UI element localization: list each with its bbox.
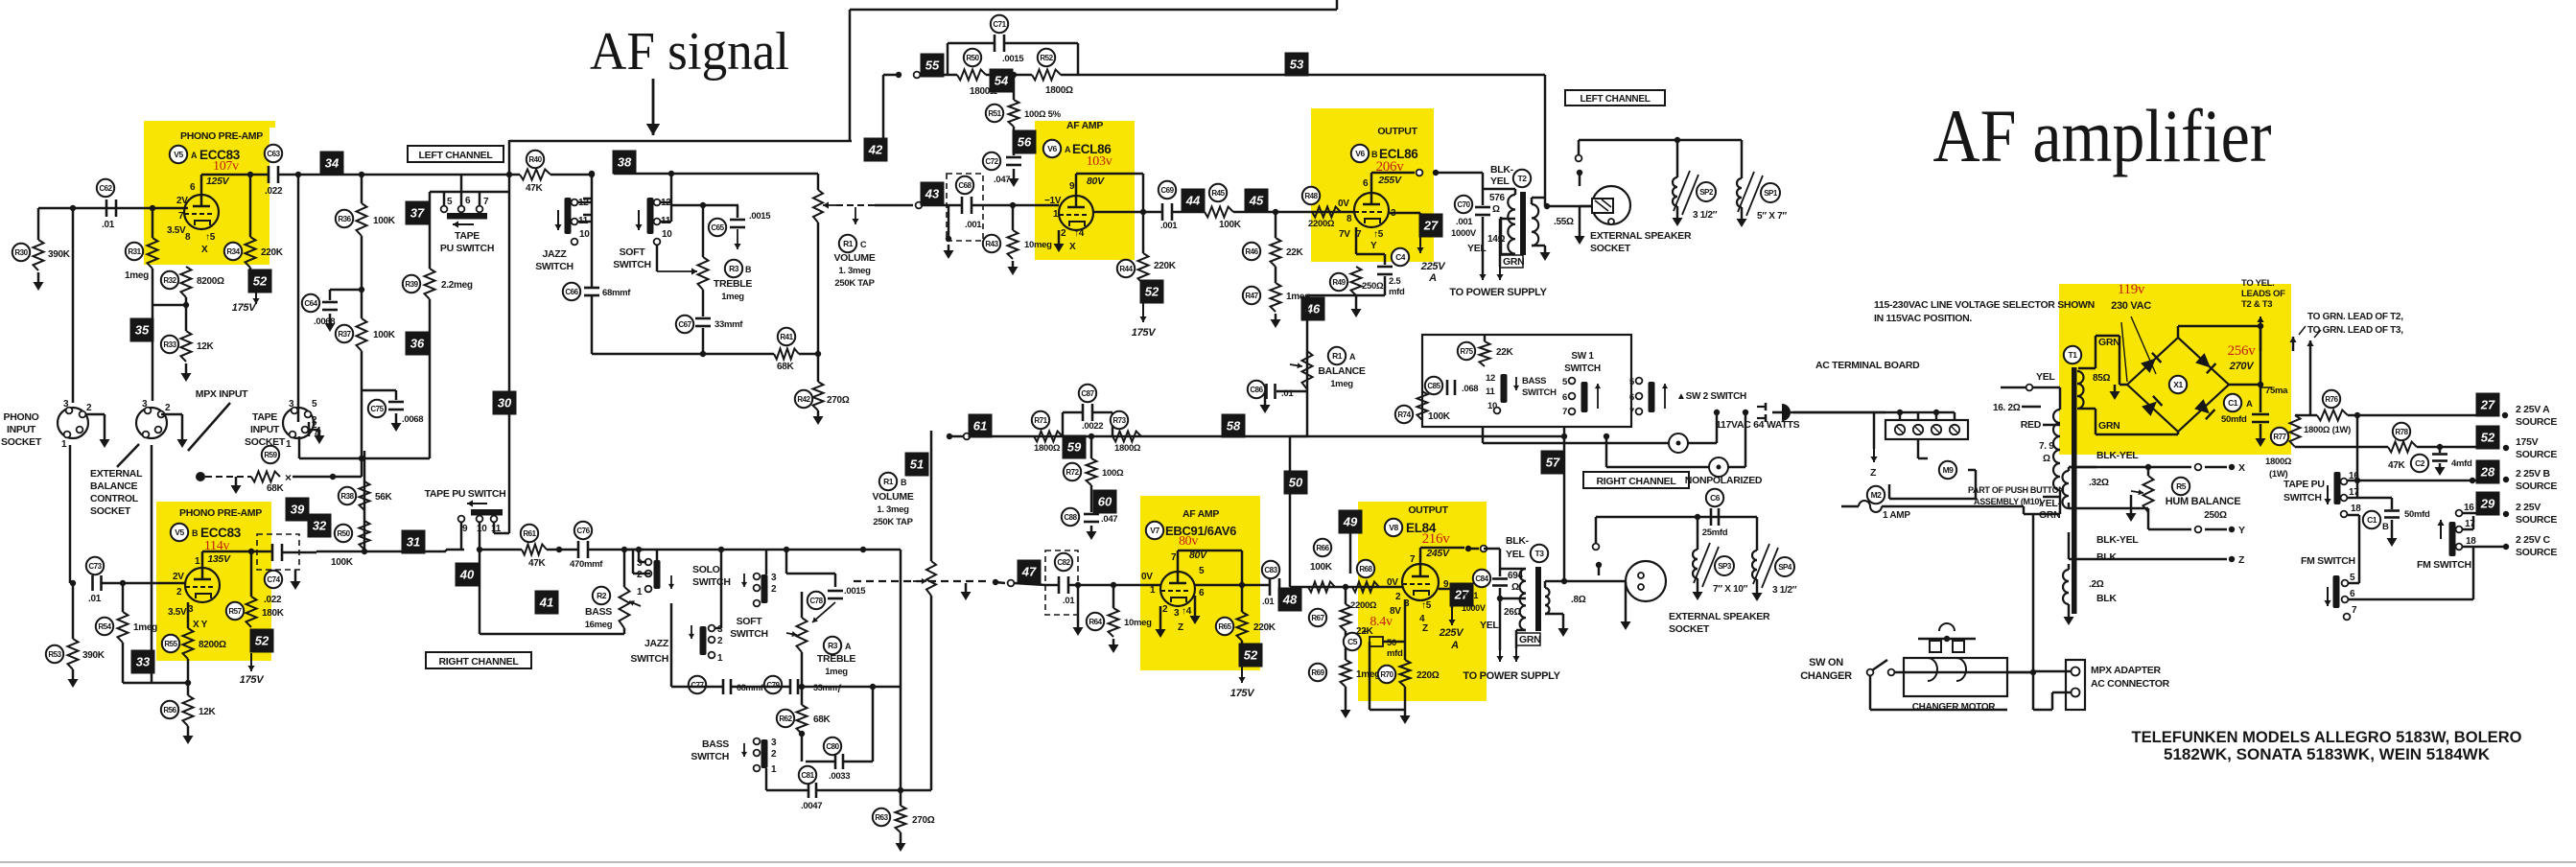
- svg-text:C70: C70: [1457, 200, 1470, 209]
- svg-text:1 AMP: 1 AMP: [1883, 510, 1910, 521]
- svg-text:YEL-: YEL-: [2039, 498, 2062, 509]
- svg-text:TAPE PU SWITCH: TAPE PU SWITCH: [425, 488, 506, 500]
- svg-text:×: ×: [285, 471, 292, 484]
- wire changer loop: [1869, 675, 1872, 710]
- arrow tape pu switch: [453, 223, 474, 225]
- tube V5a ECC83 triode: [184, 195, 219, 229]
- resistor R73 1800: [1112, 432, 1141, 442]
- svg-text:39: 39: [291, 503, 305, 517]
- svg-text:001: 001: [1464, 591, 1478, 600]
- svg-text:34: 34: [325, 156, 340, 171]
- svg-text:YEL: YEL: [1490, 176, 1510, 187]
- wire row 225VB: [2348, 480, 2480, 482]
- svg-text:B: B: [745, 265, 752, 274]
- wire row 175V b: [2417, 446, 2480, 449]
- wire row455: [949, 435, 1290, 438]
- svg-text:R63: R63: [875, 813, 888, 822]
- svg-text:AC CONNECTOR: AC CONNECTOR: [2091, 678, 2170, 690]
- changer motor box: [1904, 658, 2007, 696]
- resistor R49 250: [1351, 267, 1362, 295]
- svg-text:SP1: SP1: [1764, 189, 1778, 198]
- svg-text:1: 1: [195, 556, 200, 567]
- resistor R65 220K: [1241, 585, 1244, 612]
- svg-text:52: 52: [253, 274, 268, 289]
- tube V6a ECL86 triode: [1059, 196, 1093, 230]
- svg-text:R71: R71: [1034, 416, 1047, 425]
- svg-text:R42: R42: [797, 395, 810, 404]
- svg-text:SOCKET: SOCKET: [90, 505, 131, 517]
- wire V6a out row: [1093, 211, 1161, 214]
- svg-text:1meg: 1meg: [825, 667, 848, 677]
- capacitor C74 .022: [251, 551, 271, 553]
- wire tone right col: [830, 686, 873, 689]
- svg-text:C88: C88: [1064, 513, 1077, 522]
- svg-text:C78: C78: [809, 597, 823, 605]
- node sq 60: [1090, 485, 1093, 495]
- ground below R53: [72, 669, 75, 679]
- svg-text:4: 4: [316, 426, 321, 436]
- svg-text:SWITCH: SWITCH: [613, 259, 651, 270]
- svg-text:SP3: SP3: [1718, 562, 1732, 571]
- designator V7: [1146, 522, 1163, 539]
- svg-text:T1: T1: [2069, 350, 2078, 360]
- svg-text:C6: C6: [1710, 493, 1721, 503]
- svg-text:SOURCE: SOURCE: [2516, 547, 2557, 558]
- svg-text:GRN: GRN: [2098, 420, 2119, 432]
- box sw network: [1422, 335, 1631, 427]
- resistor R43 10meg: [1012, 205, 1015, 230]
- plate wire V7: [1177, 551, 1180, 564]
- svg-text:7: 7: [1629, 407, 1634, 417]
- svg-text:EXTERNAL SPEAKER: EXTERNAL SPEAKER: [1590, 230, 1692, 242]
- wire z row: [2069, 558, 2227, 561]
- svg-text:47K: 47K: [528, 558, 547, 569]
- svg-text:C67: C67: [678, 320, 691, 329]
- svg-text:ECC83: ECC83: [200, 526, 242, 540]
- svg-text:100K: 100K: [373, 216, 396, 226]
- svg-text:↑5: ↑5: [1421, 600, 1432, 611]
- svg-text:LEFT CHANNEL: LEFT CHANNEL: [419, 150, 494, 161]
- capacitor C6 25mfd: [1710, 508, 1713, 526]
- bass switch lower: [761, 739, 768, 768]
- wire m9 loop: [1917, 439, 1920, 458]
- switch on changer: [1867, 669, 1874, 676]
- svg-text:JAZZ: JAZZ: [542, 248, 567, 260]
- svg-text:BASS: BASS: [585, 606, 612, 618]
- svg-text:8200Ω: 8200Ω: [197, 276, 224, 287]
- svg-text:50mfd: 50mfd: [2221, 414, 2247, 425]
- svg-text:T2 & T3: T2 & T3: [2241, 299, 2272, 310]
- wire plate bus 575: [316, 551, 446, 553]
- svg-text:R1: R1: [883, 477, 894, 486]
- ground T1 bottom: [2068, 604, 2071, 612]
- svg-text:SWITCH: SWITCH: [691, 751, 729, 762]
- svg-text:C1: C1: [2228, 398, 2238, 408]
- svg-text:.01: .01: [1063, 596, 1075, 606]
- svg-text:117VAC 64 WATTS: 117VAC 64 WATTS: [1716, 419, 1800, 431]
- svg-text:AF AMP: AF AMP: [1183, 508, 1219, 520]
- svg-text:7: 7: [1171, 552, 1177, 563]
- bridge diode 4: [2194, 399, 2210, 413]
- wire grn bus down: [2309, 351, 2312, 415]
- wire socket b in: [1625, 582, 1628, 616]
- svg-text:A: A: [1428, 272, 1437, 284]
- svg-text:3: 3: [142, 399, 148, 410]
- svg-text:6: 6: [190, 182, 196, 193]
- svg-text:TAPE: TAPE: [455, 230, 480, 242]
- svg-text:3.5V: 3.5V: [167, 225, 186, 236]
- arrow to power supply a1: [1482, 267, 1484, 280]
- label RIGHT CHANNEL b: [1583, 472, 1689, 488]
- svg-text:175V: 175V: [2516, 436, 2539, 448]
- svg-text:↑5: ↑5: [205, 232, 216, 243]
- capacitor C84 .001 1000V: [1492, 577, 1508, 580]
- pot R3A treble: [801, 592, 804, 618]
- svg-text:7V: 7V: [1339, 229, 1350, 240]
- svg-text:Z: Z: [1870, 467, 1877, 479]
- capacitor C71 .0015 loop: [947, 43, 949, 75]
- svg-text:390K: 390K: [48, 249, 71, 260]
- arrow to power supply a2: [1500, 218, 1515, 221]
- bass switch mid: [1501, 374, 1508, 403]
- arrow grn 1: [2292, 337, 2294, 351]
- svg-text:RIGHT CHANNEL: RIGHT CHANNEL: [438, 656, 519, 668]
- node sq 27b: [1450, 583, 1474, 607]
- wire mpx diagonal: [188, 403, 230, 451]
- wire row1 up: [293, 476, 362, 479]
- ext balance socket: [136, 408, 167, 438]
- svg-text:220K: 220K: [1253, 622, 1276, 633]
- svg-text:Ω: Ω: [1492, 204, 1500, 215]
- svg-text:GRN: GRN: [1503, 256, 1524, 268]
- designator M9: [1939, 461, 1956, 479]
- svg-text:ASSEMBLY (M10): ASSEMBLY (M10): [1974, 497, 2042, 506]
- svg-text:B: B: [1371, 150, 1378, 159]
- svg-text:8: 8: [1347, 214, 1352, 224]
- svg-text:.047: .047: [994, 175, 1010, 185]
- svg-text:230 VAC: 230 VAC: [2111, 300, 2151, 312]
- svg-text:V6: V6: [1355, 149, 1365, 158]
- capacitor C2 4mfd: [2439, 447, 2442, 453]
- secondary coil 1: [2063, 471, 2070, 508]
- svg-text:390K: 390K: [82, 650, 105, 661]
- svg-text:YEL: YEL: [1467, 243, 1487, 254]
- svg-text:TAPE: TAPE: [252, 411, 277, 423]
- svg-text:3 1/2″: 3 1/2″: [1772, 585, 1797, 596]
- svg-text:2: 2: [86, 403, 92, 413]
- svg-text:4mfd: 4mfd: [2451, 458, 2472, 469]
- node sq 37: [406, 201, 430, 225]
- speaker SP3: [1697, 517, 1699, 550]
- svg-text:115-230VAC LINE VOLTAGE SELECT: 115-230VAC LINE VOLTAGE SELECTOR SHOWN: [1874, 299, 2095, 311]
- svg-text:.01: .01: [102, 220, 115, 230]
- wire R54 down: [122, 643, 125, 683]
- svg-text:R44: R44: [1119, 265, 1133, 273]
- svg-text:2V: 2V: [173, 572, 184, 582]
- svg-text:C74: C74: [267, 575, 280, 584]
- svg-text:SOCKET: SOCKET: [1, 436, 42, 448]
- jazz switch lower: [700, 626, 707, 655]
- svg-text:INPUT: INPUT: [250, 424, 280, 435]
- dashed box C68: [947, 174, 983, 241]
- svg-text:R53: R53: [48, 650, 61, 659]
- svg-text:.01: .01: [88, 594, 102, 604]
- transformer T2 core: [1520, 192, 1526, 255]
- scan edge line bottom: [0, 861, 2576, 863]
- svg-text:26Ω: 26Ω: [1504, 607, 1522, 618]
- resistor R50 1800: [957, 70, 986, 81]
- svg-text:BALANCE: BALANCE: [1318, 365, 1366, 377]
- node sq 50: [1289, 436, 1292, 587]
- svg-text:12K: 12K: [197, 341, 215, 352]
- capacitor C80 .0033: [801, 734, 804, 762]
- svg-text:22K: 22K: [1496, 347, 1514, 358]
- svg-text:8: 8: [185, 232, 191, 243]
- wire grid row V7: [854, 580, 990, 582]
- wire bridge top out: [2177, 326, 2180, 338]
- svg-text:R50: R50: [966, 54, 979, 62]
- wire r50-r52: [986, 74, 1032, 77]
- svg-text:SOURCE: SOURCE: [2516, 449, 2557, 460]
- svg-text:1000V: 1000V: [1451, 228, 1477, 239]
- ground tape socket: [308, 429, 319, 432]
- svg-text:BLK-YEL: BLK-YEL: [2096, 534, 2139, 546]
- capacitor C72 .047: [1013, 149, 1016, 155]
- svg-text:270Ω: 270Ω: [912, 815, 935, 826]
- capacitor C67 33mmf: [695, 317, 711, 320]
- svg-text:1: 1: [1150, 585, 1156, 596]
- pot R1B volume: [930, 431, 933, 561]
- wire changer feed: [1905, 505, 2024, 508]
- wire bass box: [623, 550, 626, 587]
- svg-text:216v: 216v: [1422, 531, 1451, 547]
- node sq 27a: [1419, 214, 1443, 238]
- svg-text:CHANGER: CHANGER: [1800, 670, 1852, 682]
- svg-text:3: 3: [63, 399, 69, 410]
- svg-text:SOURCE: SOURCE: [2516, 416, 2557, 428]
- svg-text:MPX INPUT: MPX INPUT: [196, 388, 248, 400]
- svg-text:.0068: .0068: [402, 414, 423, 425]
- resistor R69 1meg: [1345, 631, 1347, 660]
- svg-text:3: 3: [1174, 608, 1180, 619]
- svg-text:7″ X 10″: 7″ X 10″: [1713, 584, 1748, 595]
- svg-text:52: 52: [1145, 285, 1159, 299]
- svg-text:R52: R52: [1040, 54, 1053, 62]
- svg-text:7: 7: [1410, 554, 1416, 565]
- svg-text:50: 50: [1387, 638, 1396, 648]
- svg-text:R3: R3: [729, 264, 739, 273]
- svg-text:M9: M9: [1943, 465, 1955, 475]
- capacitor C75 .0068: [362, 389, 396, 392]
- wire grid bus V5a: [38, 207, 188, 210]
- svg-text:47K: 47K: [526, 183, 544, 194]
- resistor R32 8200: [181, 267, 192, 297]
- svg-text:R50: R50: [337, 529, 350, 538]
- ground ext balance: [161, 413, 182, 416]
- designator V6 B: [1351, 145, 1369, 162]
- svg-text:AF AMP: AF AMP: [1066, 120, 1103, 131]
- svg-text:5: 5: [2350, 573, 2355, 583]
- arrow to power supply b1: [1499, 650, 1501, 662]
- arrow to power supply b2: [1515, 635, 1518, 648]
- svg-text:2200Ω: 2200Ω: [1350, 600, 1377, 611]
- svg-text:SWITCH: SWITCH: [1522, 387, 1557, 398]
- tube V7 EBC91 triode: [1160, 572, 1195, 606]
- svg-text:43: 43: [925, 187, 940, 201]
- capacitor C82 .01: [1045, 584, 1058, 587]
- resistor R44 220K: [1142, 212, 1145, 253]
- svg-text:C77: C77: [691, 681, 704, 690]
- svg-text:C65: C65: [711, 223, 724, 232]
- wire x row: [2148, 466, 2191, 469]
- svg-text:11: 11: [1486, 387, 1495, 397]
- tube V5b ECC83 triode: [185, 568, 220, 602]
- svg-text:BLK-: BLK-: [1490, 164, 1514, 176]
- svg-text:3 1/2″: 3 1/2″: [1693, 210, 1718, 221]
- svg-text:1: 1: [1053, 209, 1059, 220]
- svg-text:T3: T3: [1535, 549, 1545, 558]
- arrow 175V a: [255, 291, 257, 304]
- svg-text:BLK: BLK: [2096, 551, 2117, 563]
- capacitor C87 .0022: [1082, 404, 1085, 421]
- resistor R61 47K: [522, 545, 547, 555]
- svg-text:5: 5: [312, 399, 317, 410]
- svg-text:Y: Y: [2238, 525, 2245, 536]
- svg-text:R68: R68: [1359, 565, 1372, 574]
- svg-text:220K: 220K: [261, 247, 284, 258]
- t1 85ohm coil: [2077, 371, 2084, 409]
- arrow 225V A b: [1451, 608, 1453, 625]
- svg-text:R54: R54: [98, 622, 111, 631]
- svg-text:1: 1: [637, 587, 643, 598]
- svg-text:SWITCH: SWITCH: [730, 628, 768, 640]
- svg-text:5182WK, SONATA 5183WK, WEIN 51: 5182WK, SONATA 5183WK, WEIN 5184WK: [2164, 746, 2490, 763]
- svg-text:56: 56: [1018, 135, 1032, 150]
- resistor R51 100 5pct: [1013, 75, 1016, 100]
- wire soft pin10: [656, 245, 659, 271]
- capacitor C77 68mmf: [722, 679, 725, 694]
- resistor R72 100: [1090, 436, 1093, 458]
- svg-text:.068: .068: [1462, 384, 1478, 394]
- phono input socket: [58, 408, 88, 438]
- transformer T1 core: [2064, 346, 2081, 363]
- svg-text:C: C: [860, 240, 867, 249]
- svg-text:.01: .01: [1281, 388, 1294, 399]
- svg-text:SOFT: SOFT: [737, 616, 763, 627]
- node sq 39: [286, 498, 310, 522]
- svg-text:GRN: GRN: [1519, 634, 1540, 645]
- wire R37 down: [361, 351, 363, 477]
- svg-text:255V: 255V: [1377, 175, 1402, 186]
- transformer T1 primary: [2059, 387, 2062, 410]
- svg-text:C4: C4: [1395, 252, 1406, 262]
- svg-text:R37: R37: [338, 330, 351, 339]
- node sq 41: [535, 591, 559, 615]
- resistor R41 68K: [774, 349, 799, 360]
- svg-text:119v: 119v: [2118, 282, 2145, 297]
- wire soft col: [765, 550, 768, 574]
- wire C63 right: [279, 174, 298, 176]
- svg-text:9: 9: [1443, 579, 1449, 590]
- svg-text:R76: R76: [2325, 395, 2338, 404]
- svg-text:R39: R39: [405, 280, 418, 289]
- wire R63 col: [900, 687, 902, 806]
- svg-text:.001: .001: [1160, 221, 1178, 231]
- ground R70: [1404, 687, 1407, 710]
- wire motor right: [2007, 671, 2033, 674]
- resistor R54 1meg: [122, 583, 125, 612]
- highlight AF amp V6a: [1035, 121, 1135, 260]
- wire plug loop: [1791, 411, 1885, 414]
- label LEFT CHANNEL: [408, 146, 503, 162]
- svg-text:R69: R69: [1311, 668, 1324, 677]
- resistor R78 47K: [2388, 442, 2417, 453]
- wire col 311 down: [297, 175, 300, 422]
- ground R69: [1345, 687, 1347, 704]
- svg-text:49: 49: [1343, 515, 1358, 529]
- svg-text:R61: R61: [523, 529, 536, 538]
- svg-text:100Ω: 100Ω: [1102, 468, 1124, 479]
- capacitor C85 .068: [1446, 380, 1449, 395]
- node sq 32: [308, 514, 332, 538]
- svg-text:R73: R73: [1112, 416, 1126, 425]
- svg-text:TO POWER SUPPLY: TO POWER SUPPLY: [1449, 287, 1547, 298]
- svg-text:CHANGER MOTOR: CHANGER MOTOR: [1912, 702, 1997, 713]
- svg-text:56K: 56K: [375, 492, 393, 503]
- svg-text:2.2meg: 2.2meg: [441, 280, 473, 291]
- svg-text:R51: R51: [988, 109, 1001, 118]
- svg-text:SWITCH: SWITCH: [630, 653, 668, 665]
- wire long vertical 531: [508, 140, 511, 533]
- arrow to yel: [2260, 316, 2261, 351]
- node sq 61: [969, 414, 993, 438]
- wire pin18 col: [2348, 514, 2359, 517]
- capacitor C63 .022: [268, 166, 270, 183]
- svg-text:B: B: [192, 528, 199, 538]
- ground R63: [900, 832, 902, 838]
- wire R31 to R32 node: [152, 269, 154, 305]
- svg-text:Z: Z: [1422, 623, 1428, 634]
- wire speaker loop b: [1596, 516, 1757, 519]
- svg-text:107v: 107v: [213, 159, 239, 174]
- svg-text:INPUT: INPUT: [7, 424, 36, 435]
- label LEFT CHANNEL b: [1565, 90, 1665, 105]
- svg-text:V7: V7: [1150, 526, 1159, 535]
- svg-text:BASS: BASS: [1522, 376, 1546, 387]
- svg-text:RED: RED: [2021, 419, 2042, 431]
- wire sq49 stub: [1349, 533, 1352, 574]
- svg-text:47K: 47K: [2388, 460, 2406, 471]
- ground C74 box: [294, 570, 297, 575]
- svg-text:6: 6: [1363, 178, 1369, 189]
- node sq 55: [921, 54, 945, 78]
- node sq 58: [1222, 414, 1246, 438]
- svg-text:0V: 0V: [1387, 577, 1398, 588]
- svg-text:41: 41: [539, 596, 553, 610]
- capacitor C79 33mmf: [789, 679, 792, 694]
- svg-text:BASS: BASS: [702, 738, 729, 750]
- svg-text:52: 52: [2481, 431, 2495, 445]
- svg-text:135V: 135V: [207, 553, 231, 565]
- arrow 225V A a: [1419, 237, 1421, 253]
- svg-text:.0015: .0015: [844, 586, 866, 597]
- svg-text:470mmf: 470mmf: [570, 559, 603, 570]
- svg-text:IN 115VAC POSITION.: IN 115VAC POSITION.: [1874, 313, 1972, 324]
- svg-text:9: 9: [1069, 181, 1075, 192]
- svg-text:45: 45: [1249, 194, 1264, 208]
- wire grid row 214: [898, 204, 913, 207]
- bridge diode 1: [2141, 359, 2156, 373]
